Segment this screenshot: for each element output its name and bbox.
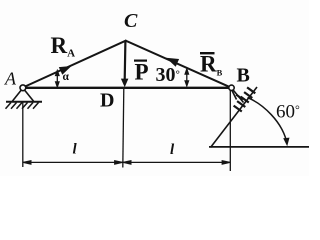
dimension extension line center	[123, 88, 124, 168]
force P arrowhead at D	[121, 79, 128, 88]
60 degree arc	[248, 98, 287, 141]
roller support B leg	[232, 88, 244, 103]
60 arc arrowhead	[283, 138, 289, 147]
force R_B arrowhead	[166, 58, 179, 67]
dimension extension line left	[22, 103, 24, 168]
svg-text:P: P	[135, 60, 149, 85]
svg-text:60°: 60°	[276, 102, 300, 123]
svg-text:B: B	[237, 65, 250, 87]
svg-text:D: D	[100, 90, 114, 112]
ground line at A	[6, 101, 42, 103]
dimension line l left segment	[23, 161, 123, 165]
force R_A arrowhead	[59, 66, 72, 75]
svg-text:RB: RB	[200, 52, 223, 78]
pin circle A	[20, 85, 26, 91]
wire member C-B	[126, 41, 232, 88]
wire member A-C	[23, 41, 126, 88]
svg-text:l: l	[170, 142, 175, 158]
ground hatching at A	[6, 103, 39, 109]
ground line right	[209, 146, 309, 148]
angle 30 dimension arrows	[185, 69, 189, 87]
angle alpha dimension arrows	[55, 70, 59, 87]
surface hatching at B	[234, 87, 256, 111]
dimension line l right segment	[123, 161, 231, 165]
svg-text:l: l	[73, 142, 78, 158]
force P line C-D	[124, 41, 127, 80]
pin circle B	[229, 85, 234, 90]
wire beam A-B	[23, 87, 232, 89]
roller support B left leg	[231, 89, 237, 100]
svg-text:C: C	[124, 10, 138, 32]
svg-text:A: A	[4, 69, 17, 89]
inclined surface line at B	[211, 87, 258, 148]
svg-text:RA: RA	[51, 33, 76, 60]
svg-text:30°: 30°	[156, 64, 180, 86]
dimension extension line right	[229, 90, 231, 171]
svg-text:α: α	[63, 71, 70, 83]
pin support A triangle	[6, 88, 43, 109]
